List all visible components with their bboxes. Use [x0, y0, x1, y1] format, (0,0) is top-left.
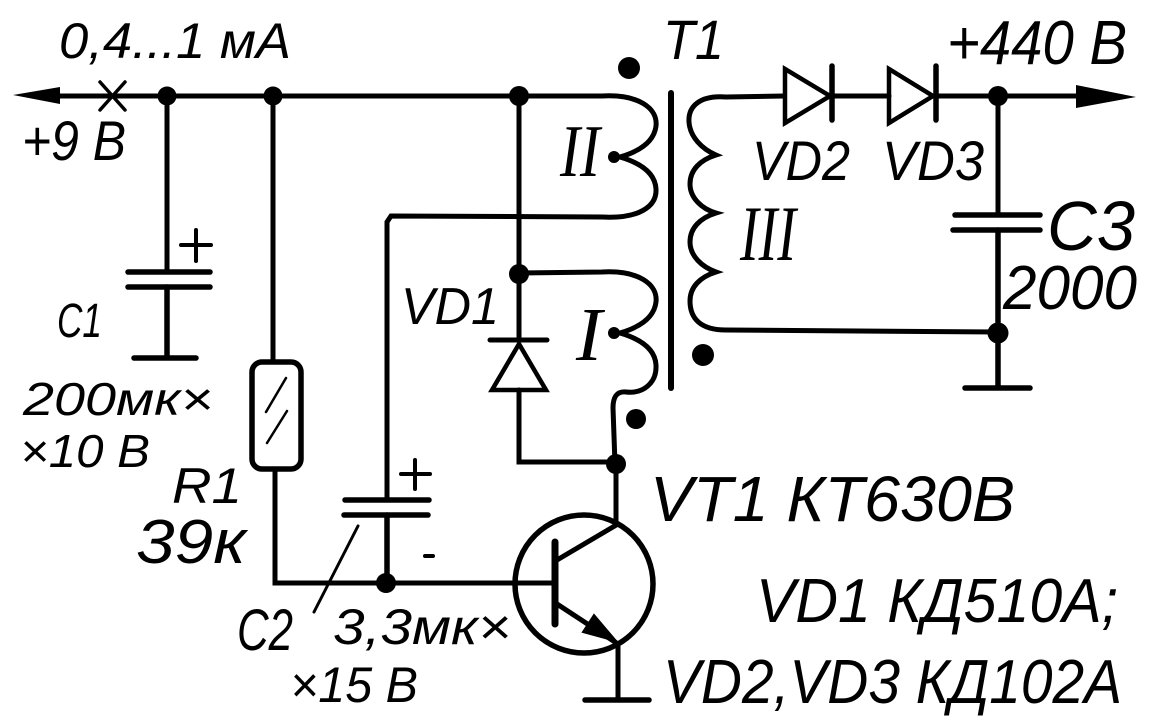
winding II pinch blob [608, 151, 620, 163]
svg-text:VD1 КД510А;: VD1 КД510А; [756, 567, 1118, 636]
transformer T1 winding I [519, 272, 656, 464]
wire winding II bottom to C2 [387, 216, 602, 498]
phasing dot winding II [618, 57, 640, 79]
svg-text:Т1: Т1 [663, 8, 724, 71]
svg-text:×15 В: ×15 В [290, 657, 418, 713]
svg-text:VD3: VD3 [882, 129, 984, 192]
svg-text:×10 В: ×10 В [20, 425, 150, 477]
diode VD1 [490, 340, 612, 462]
svg-text:R1: R1 [172, 458, 242, 514]
wire R1 bottom lead [275, 469, 386, 583]
node junction C3/ground [988, 323, 1009, 344]
svg-text:2000: 2000 [1002, 254, 1137, 323]
svg-text:200мк×: 200мк× [22, 373, 213, 425]
node junction collector/winding I [606, 454, 626, 474]
svg-text:0,4...1 мА: 0,4...1 мА [59, 13, 291, 69]
diode VD2 [785, 66, 832, 123]
wire top +9V rail [56, 94, 519, 99]
node junction C2/base [376, 573, 396, 593]
capacitor C1 [128, 272, 210, 358]
winding I pinch blob [608, 327, 620, 339]
svg-text:C1: C1 [57, 295, 102, 348]
svg-text:VD2,VD3 КД102А: VD2,VD3 КД102А [663, 648, 1122, 717]
arrow +9V output (left) [13, 87, 60, 104]
wire base rail [386, 581, 552, 586]
node junction output/C3 [988, 86, 1008, 106]
transformer T1 winding II [519, 96, 656, 217]
wire VD2-VD3 [830, 94, 889, 99]
svg-text:I: I [575, 293, 606, 377]
svg-text:+440 В: +440 В [947, 9, 1127, 78]
svg-text:3,3мк×: 3,3мк× [333, 599, 511, 655]
svg-text:VD1: VD1 [401, 278, 499, 336]
node junction C1/rail [158, 87, 177, 106]
transformer T1 core [668, 93, 674, 388]
transistor VT1 [515, 464, 653, 653]
break mark x on +9V wire [100, 82, 125, 110]
transformer T1 winding III [689, 96, 997, 332]
svg-text:II: II [559, 111, 603, 193]
capacitor C3 [953, 215, 1040, 333]
wire C3 top lead [996, 96, 1001, 213]
diode VD3 [889, 66, 936, 123]
svg-text:VT1 КТ630В: VT1 КТ630В [650, 463, 1015, 535]
node junction winding I / VD1 [509, 264, 529, 284]
wire VD1 column [517, 96, 522, 338]
wire emitter lead [616, 644, 621, 698]
C2 label leader line [314, 526, 358, 612]
svg-text:39к: 39к [136, 508, 249, 577]
wire VD3 to output [936, 94, 1080, 99]
phasing dot winding III [692, 344, 714, 366]
C2 plus polarity [401, 460, 430, 489]
svg-text:C2: C2 [237, 598, 293, 663]
node junction rail/winding II [509, 86, 529, 106]
wire C1 top lead [165, 96, 170, 270]
phasing dot winding I [626, 409, 646, 429]
ink speck [425, 554, 433, 558]
resistor R1 [252, 362, 301, 469]
svg-text:+9 В: +9 В [22, 109, 126, 172]
ground under VT1 emitter [585, 697, 649, 703]
svg-text:VD2: VD2 [752, 129, 850, 192]
arrow +440V output (right) [1076, 85, 1136, 108]
node junction R1/rail [264, 87, 283, 106]
wire R1 top lead [271, 96, 276, 362]
svg-text:III: III [739, 190, 799, 277]
capacitor C2 [344, 500, 429, 583]
C1 plus polarity [181, 230, 211, 261]
ground under C3 [965, 333, 1030, 388]
